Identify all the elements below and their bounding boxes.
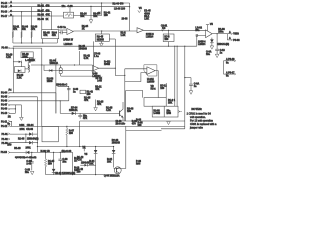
wire box bottom to H6 <box>168 42 170 46</box>
cap stub x80 <box>78 113 82 118</box>
junction ladder <box>15 108 16 109</box>
ground below x91 <box>89 20 93 23</box>
wire V B2 down to U4 <box>93 41 95 71</box>
label R1-88 180a <box>218 29 225 34</box>
resistor R1-06 label <box>31 27 38 32</box>
label R-04 10K b <box>107 158 113 164</box>
long wire y126 <box>10 125 185 127</box>
ladder vertical x15 <box>14 105 16 113</box>
wire diode row1 out <box>33 133 38 135</box>
svg-text:C-0A: C-0A <box>206 51 212 54</box>
svg-text:1.8K: 1.8K <box>17 78 22 80</box>
junction H2 x129 <box>129 6 130 7</box>
diode CR-01 left pointing <box>26 151 29 154</box>
svg-text:VSIG: VSIG <box>233 34 239 36</box>
capacitor on x68 <box>67 89 71 90</box>
ground under ladder <box>20 117 24 120</box>
svg-text:R2-x: R2-x <box>151 89 157 91</box>
label R1-24 1K <box>82 25 89 31</box>
svg-text:47K: 47K <box>84 99 89 102</box>
svg-text:K1-45: K1-45 <box>144 10 151 13</box>
wire V x60 <box>59 101 61 114</box>
wire V x44 <box>43 65 45 71</box>
wire row5 <box>10 108 15 110</box>
label R1-05 1N4148 <box>79 46 88 51</box>
wire H tap y77 <box>185 77 191 79</box>
junction square <box>196 35 198 37</box>
svg-text:P1-09: P1-09 <box>1 109 8 111</box>
wire into U5 upper <box>125 68 147 70</box>
svg-text:1.8K: 1.8K <box>144 19 149 21</box>
svg-text:P1-10: P1-10 <box>1 113 8 115</box>
wire V x25 <box>25 134 27 143</box>
component K1 text block <box>144 10 151 21</box>
label left of BR2 <box>127 108 134 113</box>
wire box top to out wire <box>168 30 170 35</box>
svg-text:2401: 2401 <box>20 128 26 131</box>
svg-text:1N914A: 1N914A <box>69 109 78 112</box>
wire U1A output to U2C <box>73 30 137 32</box>
junction on H4 <box>12 15 13 16</box>
svg-text:8a: 8a <box>226 62 229 64</box>
junction bottom x60 <box>60 174 61 175</box>
wire V x79 <box>79 121 81 147</box>
junction x115 y68 <box>115 68 116 69</box>
wire box to opamp upper <box>59 29 67 31</box>
svg-text:R06: R06 <box>136 164 141 166</box>
svg-text:1N914A: 1N914A <box>50 62 59 65</box>
bracket pin P3-17 <box>224 72 236 78</box>
svg-text:18a: 18a <box>206 54 211 56</box>
svg-text:R2-45: R2-45 <box>97 35 104 38</box>
svg-text:R1-02: R1-02 <box>38 5 45 7</box>
diode top branch x113 <box>112 147 116 168</box>
wire row P1-11 <box>10 121 12 126</box>
diode branch x53 <box>52 152 56 174</box>
tap chevron on wire <box>161 30 163 32</box>
svg-text:R1-08: R1-08 <box>38 15 45 17</box>
V5 supply to U3 <box>206 24 214 31</box>
svg-text:R1-07: R1-07 <box>38 10 45 12</box>
resistor R2-24 labels <box>93 13 100 18</box>
wire row6 <box>10 112 15 114</box>
label R1-58 <box>47 79 54 84</box>
label R1-8 1.8K <box>121 32 127 37</box>
svg-text:47K: 47K <box>83 117 88 120</box>
wire U2C output long <box>144 29 206 31</box>
svg-text:8a: 8a <box>226 76 229 78</box>
box BR2 <box>152 106 178 117</box>
svg-text:V5: V5 <box>84 154 88 156</box>
svg-text:Ax: Ax <box>8 89 12 92</box>
wire into U3 plus input <box>197 35 206 46</box>
wire V x55 lower <box>55 93 57 114</box>
comparator U5 outline <box>144 65 157 76</box>
Q2 collector wire <box>122 102 124 109</box>
svg-text:1K: 1K <box>98 13 101 15</box>
winding L1 <box>28 65 29 72</box>
svg-text:180M: 180M <box>104 64 110 66</box>
connector pin P1-02 <box>2 138 11 141</box>
junction bus x21 <box>21 42 22 43</box>
resistor R1-03 row label <box>38 19 49 21</box>
svg-text:P1-01: P1-01 <box>2 134 9 136</box>
label C-0A <box>194 83 200 89</box>
wire V x184 <box>184 46 186 129</box>
svg-text:R1-24: R1-24 <box>80 12 87 15</box>
BR2 right cell text <box>166 110 171 115</box>
wire V x115 down <box>114 39 116 68</box>
svg-text:180: 180 <box>104 15 109 17</box>
wire V col4 to bus <box>41 3 43 30</box>
wire row4 <box>10 104 21 106</box>
resistor body col x21.6 <box>21 32 23 38</box>
junction bottom x72 <box>72 174 73 175</box>
label R-08 1K <box>74 158 80 163</box>
op-amp U4 <box>93 66 99 72</box>
svg-text:A: A <box>229 31 231 34</box>
svg-text:P1-05: P1-05 <box>1 96 8 98</box>
svg-text:A: A <box>229 37 231 40</box>
pin out P3 <box>227 34 240 42</box>
label R1-21 47K <box>95 87 102 92</box>
junction x184 H6 <box>184 46 185 47</box>
svg-text:1K: 1K <box>82 29 85 31</box>
svg-text:Q-04 2N2222A: Q-04 2N2222A <box>104 175 120 178</box>
connector pin P1-06 <box>1 100 10 102</box>
wire V x41 long <box>41 48 43 126</box>
svg-text:1-80M: 1-80M <box>153 113 160 115</box>
label 18a 47K <box>83 115 88 120</box>
wire V x125 <box>125 91 127 122</box>
open arrow on V x93 <box>92 71 96 75</box>
wire V x55 long <box>55 58 57 113</box>
label R-08 under lineA <box>138 122 144 127</box>
wire diode row1 <box>10 133 29 135</box>
label R7-12 180 <box>160 85 167 90</box>
diode CR-12 <box>49 69 52 71</box>
svg-text:100K: 100K <box>22 56 28 58</box>
resistor R1-07 row label <box>38 9 51 12</box>
svg-text:47K: 47K <box>46 14 51 17</box>
resistor R1-01 label <box>13 27 20 32</box>
resistor branch x45 <box>44 152 46 174</box>
capacitor inline on lower input <box>59 31 67 35</box>
svg-text:1 Aa: 1 Aa <box>94 55 100 58</box>
connector pin P1-04 <box>1 89 12 95</box>
svg-text:R1-42: R1-42 <box>104 11 111 14</box>
svg-text:47K: 47K <box>22 28 27 31</box>
label R1-05 180 <box>48 161 55 166</box>
label R1-05 1.8K <box>17 75 24 80</box>
svg-text:A P3-17: A P3-17 <box>226 72 235 75</box>
cap branch x60 <box>58 152 62 174</box>
svg-text:(B)+C-08: (B)+C-08 <box>62 151 72 153</box>
svg-text:A P3-18: A P3-18 <box>226 58 235 61</box>
svg-text:R1-44 470: R1-44 470 <box>113 2 125 5</box>
svg-text:1N4148: 1N4148 <box>112 141 121 144</box>
label above arrow <box>97 101 104 106</box>
wire box bottom to bus right <box>56 39 58 43</box>
junction output x217 <box>217 33 218 34</box>
connector pin P1-12 <box>1 125 10 128</box>
svg-text:8(R/W)7(B)+C-4(B)+(R): 8(R/W)7(B)+C-4(B)+(R) <box>15 156 37 159</box>
wire diode row y70.5 <box>44 70 93 72</box>
label C-18 1a <box>220 50 226 55</box>
label R1-05 47K <box>84 97 91 102</box>
resistor R1-04 label <box>22 26 29 32</box>
detour to U5 lower <box>125 73 147 82</box>
svg-text:180: 180 <box>48 164 53 166</box>
label R1-0 1 10K <box>168 100 176 105</box>
wire V x142 <box>126 91 143 98</box>
junction x79 bottom <box>79 146 80 147</box>
label C7-08 <box>94 53 101 58</box>
junction x60 row3 <box>60 100 61 101</box>
resistor R-07 vertical <box>66 126 68 146</box>
wire U5 out down <box>155 71 158 98</box>
label 1/4W LM324 <box>198 40 206 46</box>
svg-text:R-08: R-08 <box>136 119 142 121</box>
box BR1 <box>144 98 166 107</box>
Q2 emitter wire <box>122 117 124 121</box>
connector pin P1-08 <box>2 47 11 50</box>
wire net H3 <box>10 11 52 13</box>
svg-text:LM339: LM339 <box>147 81 155 83</box>
connector pin P1-16 <box>1 11 12 14</box>
svg-text:1R: 1R <box>8 116 11 118</box>
wire from P1-08 <box>10 47 42 49</box>
junction on H3 <box>21 11 22 12</box>
ground under cap x31 <box>30 171 34 174</box>
svg-text:4.7K: 4.7K <box>84 57 89 60</box>
svg-text:R1-08: R1-08 <box>18 138 25 140</box>
svg-text:LM324: LM324 <box>64 42 73 46</box>
wire V x79 <box>79 51 81 65</box>
junction on H6 <box>168 46 169 47</box>
connector pin P1-05 <box>1 96 10 98</box>
connector pin P1-11 <box>1 120 10 123</box>
wire net H2 <box>10 6 130 8</box>
transistor Q2 <box>120 109 123 117</box>
wire from C-08 right <box>74 15 102 17</box>
label U-0A5 LM339 <box>147 78 155 84</box>
ladder vertical x21 <box>20 105 22 117</box>
svg-text:LM324: LM324 <box>146 36 154 39</box>
svg-text:P1-17: P1-17 <box>1 16 8 18</box>
junction bottom x95 <box>95 174 96 175</box>
junction x53 <box>53 152 54 153</box>
label VR R2 <box>151 86 157 91</box>
svg-text:10K: 10K <box>168 102 173 104</box>
svg-text:10K: 10K <box>80 16 85 18</box>
wire net H4 <box>10 15 64 17</box>
svg-text:P1-15: P1-15 <box>1 7 8 9</box>
label ground label <box>206 51 212 57</box>
NOTES body <box>187 112 217 129</box>
box R1-48 resistor pack <box>42 30 59 39</box>
svg-text:jumper wire: jumper wire <box>189 126 204 129</box>
svg-text:P1-12: P1-12 <box>1 126 8 128</box>
svg-text:10K: 10K <box>89 164 94 166</box>
junction x92 on out wire <box>101 30 102 31</box>
svg-text:180: 180 <box>69 133 74 135</box>
svg-text:470: 470 <box>132 123 137 126</box>
wire H y128.8 <box>161 128 185 130</box>
svg-text:47K: 47K <box>31 28 36 31</box>
box B4 component <box>21 52 33 59</box>
svg-text:18-08: 18-08 <box>122 19 129 21</box>
svg-text:2401: 2401 <box>19 124 25 127</box>
wire diode row2 out <box>33 142 38 144</box>
svg-text:18a: 18a <box>62 6 67 8</box>
svg-text:P1-08: P1-08 <box>2 48 9 50</box>
wire U3 output <box>212 33 227 35</box>
resistor R1-08 row label <box>38 14 51 17</box>
connector pin P1-17 <box>1 15 12 18</box>
svg-text:CR-08: CR-08 <box>26 129 33 131</box>
svg-text:1N914A(8): 1N914A(8) <box>27 137 39 140</box>
svg-text:4.7K: 4.7K <box>77 158 82 161</box>
svg-text:4.7K: 4.7K <box>106 109 111 112</box>
label C-08 18a <box>62 159 68 164</box>
wire V x37 <box>36 97 38 153</box>
rail y76 <box>61 75 94 77</box>
junction x41 <box>41 64 42 65</box>
label P-08 floating <box>136 161 142 166</box>
rect component block <box>42 126 58 141</box>
svg-text:P3-08: P3-08 <box>233 40 240 42</box>
capacitor C-1A chain <box>215 34 219 55</box>
label above box <box>132 121 138 126</box>
wire diode row y113 <box>60 112 119 114</box>
wire V into C-08 <box>69 6 71 12</box>
ground under U2 <box>100 41 104 46</box>
label U-04C LM324 <box>146 33 154 39</box>
svg-text:1.8K: 1.8K <box>121 35 126 37</box>
svg-text:1/88: 1/88 <box>166 113 171 115</box>
wire B2 out right <box>109 38 115 40</box>
ground under diode <box>210 46 214 49</box>
junction bus x31 <box>31 42 32 43</box>
label C-08 <box>73 89 79 94</box>
svg-text:47K: 47K <box>52 34 57 37</box>
ground under C-1A <box>215 54 219 57</box>
svg-text:LR-08 180: LR-08 180 <box>114 8 126 10</box>
svg-text:NOTES:: NOTES: <box>191 107 202 111</box>
svg-text:2N-8-23+: 2N-8-23+ <box>116 123 126 125</box>
transistor Q1 circle <box>114 167 121 174</box>
resistor body col x12.9 <box>12 32 14 38</box>
svg-text:V5: V5 <box>139 8 143 10</box>
svg-text:P1-16: P1-16 <box>1 12 8 14</box>
label left of box <box>112 140 121 145</box>
svg-text:CR-04: CR-04 <box>27 124 34 127</box>
junction x66 bottom <box>66 146 67 147</box>
svg-text:47K: 47K <box>97 103 102 106</box>
wire row3 <box>10 100 69 102</box>
svg-text:NE555: NE555 <box>97 39 105 41</box>
comparator U5 triangle <box>147 67 155 75</box>
wire V col3 to bus <box>31 7 33 43</box>
diode CR-04 <box>29 132 32 135</box>
junction x25 <box>25 134 26 135</box>
svg-text:1a: 1a <box>194 86 197 88</box>
junction H1 x101 <box>101 2 102 3</box>
resistor R1-02 row label <box>38 4 51 7</box>
wire V into U2 top <box>101 31 103 34</box>
BR2 left cell text <box>153 110 160 115</box>
diode top branch x95 <box>94 147 98 175</box>
svg-text:R1-48: R1-48 <box>43 32 50 35</box>
svg-text:V5: V5 <box>210 24 214 26</box>
label R1-42 4.7K <box>84 54 91 60</box>
svg-text:LM324: LM324 <box>198 43 206 46</box>
svg-text:R2-1: R2-1 <box>144 16 150 18</box>
junction <box>184 77 185 78</box>
svg-text:1/8: 1/8 <box>162 28 166 30</box>
junction x31 <box>31 152 32 153</box>
wire V x101 from H1 <box>101 3 103 16</box>
wire V x158 into BR1 handled above <box>165 83 167 98</box>
box B5 component <box>14 67 25 73</box>
label 1/4MA W LM324 <box>63 39 73 46</box>
connector pin P1-13 <box>1 152 10 154</box>
wire U4 out right <box>99 68 125 75</box>
branch x72 <box>72 152 74 174</box>
diode CR-08 <box>29 141 32 144</box>
BR2 chevron pin <box>178 111 181 113</box>
bottom bus wire <box>46 174 115 176</box>
chevron tap V5 <box>138 10 141 12</box>
svg-text:P1-07: P1-07 <box>1 105 8 107</box>
svg-text:180: 180 <box>127 111 132 113</box>
label U-0A LM324 <box>92 73 101 78</box>
svg-text:47K: 47K <box>43 34 48 37</box>
big box bottom middle <box>114 126 126 168</box>
junction x66 top <box>66 126 67 127</box>
junction x74 <box>74 64 75 65</box>
label C2-08 <box>161 26 168 31</box>
junction x95 top <box>95 146 96 147</box>
junction x124 <box>124 75 125 76</box>
wire row2 <box>10 96 37 98</box>
svg-text:180: 180 <box>77 171 82 173</box>
junction H2 x91 <box>90 6 91 7</box>
wire V from H3 corner to box <box>51 12 53 30</box>
svg-text:47K: 47K <box>13 28 18 31</box>
junction bus x42 <box>42 42 43 43</box>
junction H2 <box>69 6 70 7</box>
open arrow down x95 <box>94 100 98 111</box>
wire V x177 <box>176 46 178 106</box>
svg-text:R1-28: R1-28 <box>14 148 21 150</box>
junction x60 <box>60 152 61 153</box>
wire H y146 <box>37 146 113 148</box>
wire net H1 <box>10 2 130 4</box>
svg-text:R1-03: R1-03 <box>38 19 45 21</box>
wire box bottom to bus left <box>42 39 44 43</box>
svg-text:18a: 18a <box>62 162 67 164</box>
wire V x174 upper <box>174 46 176 106</box>
op-amp U2-C small <box>137 28 144 33</box>
svg-text:2401: 2401 <box>26 146 32 149</box>
diode CR below U3 <box>210 38 214 46</box>
svg-text:C-18 1a: C-18 1a <box>58 27 67 29</box>
svg-text:P1-14: P1-14 <box>1 2 8 5</box>
op-amp U3 <box>206 30 213 38</box>
capacitor chain x191 <box>189 78 193 91</box>
